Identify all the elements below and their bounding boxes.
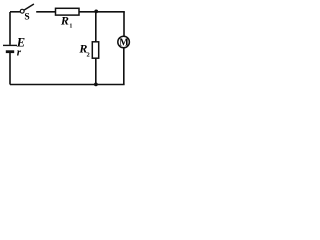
node junction dot top [94,10,98,14]
left wire upper (corner to battery) [9,12,11,45]
svg-text:1: 1 [69,23,72,29]
wire R2 to bottom [95,58,97,84]
resistor R1 box [56,8,80,15]
switch S lever [24,4,34,10]
switch S pivot circle [20,9,24,13]
bottom wire [10,84,125,86]
svg-text:r: r [17,47,22,59]
motor M circle [118,36,130,48]
left wire lower (battery to bottom-left corner) [9,53,11,85]
wire motor to bottom-right corner [123,48,125,85]
svg-text:M: M [119,37,129,48]
wire right vertical top (corner to motor) [123,12,125,37]
wire switch to R1 [36,11,55,13]
node junction dot bottom [94,83,98,87]
wire top-left horizontal (corner to switch pivot) [10,11,20,13]
wire branch down to R2 [95,12,97,42]
svg-text:R: R [60,14,69,28]
svg-text:2: 2 [87,52,90,59]
battery E long plate [3,44,17,46]
svg-text:S: S [24,13,29,23]
battery short thick plate [6,50,14,53]
resistor R2 box [92,42,98,58]
wire R1 to top-right corner [79,11,125,13]
